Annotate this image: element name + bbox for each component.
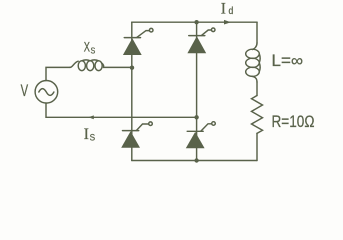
svg-text:I: I xyxy=(221,0,226,17)
svg-text:I: I xyxy=(84,126,89,143)
svg-text:R=10Ω: R=10Ω xyxy=(272,113,315,131)
svg-text:L=∞: L=∞ xyxy=(272,52,304,70)
svg-text:S: S xyxy=(90,133,96,144)
svg-text:d: d xyxy=(229,6,234,17)
svg-text:V: V xyxy=(21,82,29,100)
svg-text:X: X xyxy=(84,38,91,54)
svg-text:S: S xyxy=(91,45,96,55)
